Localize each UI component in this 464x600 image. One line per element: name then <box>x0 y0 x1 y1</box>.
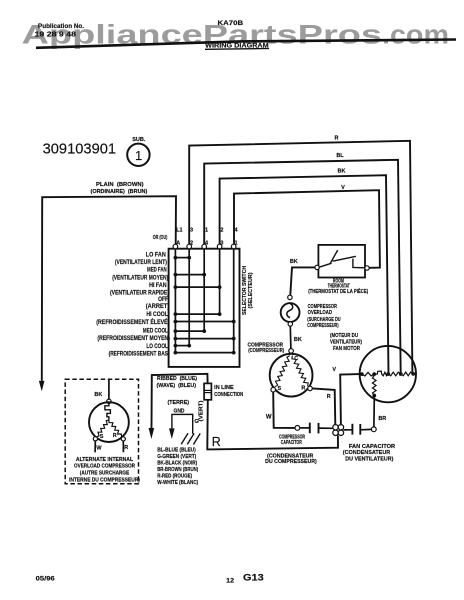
svg-text:(ORDINAIRE) (BRUN): (ORDINAIRE) (BRUN) <box>91 189 148 195</box>
svg-text:19 28 9 48: 19 28 9 48 <box>35 32 77 39</box>
selector switch <box>169 249 240 367</box>
model number KA70B <box>218 20 244 27</box>
fan motor labels <box>330 333 362 352</box>
svg-text:BL-BLUE (BLEU): BL-BLUE (BLEU) <box>157 448 196 454</box>
footer code G13 <box>243 573 264 584</box>
svg-text:INTERNE DU COMPRESSEUR): INTERNE DU COMPRESSEUR) <box>69 478 140 484</box>
svg-text:(REFROIDISSEMENT BAS): (REFROIDISSEMENT BAS) <box>109 351 170 357</box>
svg-text:VENTILATEUR): VENTILATEUR) <box>330 340 362 346</box>
label W <box>266 415 272 421</box>
svg-text:BK: BK <box>338 169 346 175</box>
ground wires with arrow <box>169 414 193 439</box>
svg-text:DU COMPRESSEUR): DU COMPRESSEUR) <box>265 459 317 465</box>
svg-text:FAN CAPACITOR: FAN CAPACITOR <box>349 444 396 450</box>
wire BR fan capacitor to fan motor <box>373 397 375 427</box>
wire V junction to fan motor <box>340 374 359 425</box>
svg-text:(WAVE) (BLEU): (WAVE) (BLEU) <box>157 383 197 389</box>
label SELECTOR SWITCH rotated <box>242 266 254 315</box>
in-line connector labels <box>214 385 243 398</box>
label BK <box>338 169 346 175</box>
svg-text:(ARRET): (ARRET) <box>146 304 170 310</box>
label R <box>335 135 339 141</box>
svg-text:COMPRESSOR: COMPRESSOR <box>308 304 338 310</box>
alt compressor lead wires <box>95 441 123 452</box>
svg-text:OVERLOAD COMPRESSOR: OVERLOAD COMPRESSOR <box>74 463 135 469</box>
svg-text:(TERRE): (TERRE) <box>168 400 190 406</box>
ground symbol <box>181 433 200 444</box>
svg-text:IN LINE: IN LINE <box>214 385 234 391</box>
svg-text:LO FAN: LO FAN <box>146 252 166 258</box>
svg-text:C: C <box>294 356 298 362</box>
compressor capacitor <box>295 423 333 434</box>
ground labels <box>168 400 200 425</box>
selector terminals <box>173 244 236 249</box>
svg-text:1: 1 <box>205 227 208 233</box>
svg-text:BR-BROWN (BRUN): BR-BROWN (BRUN) <box>157 467 198 473</box>
svg-text:4: 4 <box>205 241 209 247</box>
svg-text:KA70B: KA70B <box>218 20 244 27</box>
svg-text:.com: .com <box>382 20 449 50</box>
alt compressor labels <box>69 457 140 484</box>
svg-text:3: 3 <box>220 241 223 247</box>
wire BK alt compressor <box>108 380 110 399</box>
selector pin labels A 2 4 3 1 <box>176 241 237 247</box>
label R <box>327 394 331 400</box>
thermostat labels <box>308 279 368 295</box>
compressor capacitor labels <box>265 435 317 466</box>
label V <box>332 367 336 373</box>
svg-text:R: R <box>124 445 128 451</box>
svg-text:CONNECTION: CONNECTION <box>214 392 243 398</box>
publication number block <box>35 24 85 39</box>
svg-text:W: W <box>266 415 272 421</box>
wire ribbed blue with arrow <box>149 374 208 439</box>
svg-text:G13: G13 <box>243 573 264 584</box>
svg-text:MED COOL: MED COOL <box>143 328 168 334</box>
svg-text:(REFROIDISSEMENT MOYEN): (REFROIDISSEMENT MOYEN) <box>97 336 170 342</box>
svg-text:1: 1 <box>135 148 142 163</box>
label BL <box>336 153 344 159</box>
svg-text:Publication No.: Publication No. <box>38 24 84 30</box>
svg-text:R: R <box>301 385 305 391</box>
svg-text:(VERT): (VERT) <box>198 400 204 421</box>
svg-text:309103901: 309103901 <box>43 141 117 158</box>
fan capacitor <box>344 424 377 435</box>
svg-text:BK: BK <box>94 392 102 398</box>
svg-text:05/96: 05/96 <box>36 577 56 583</box>
svg-text:R: R <box>113 433 117 439</box>
svg-text:SELECTOR SWITCH: SELECTOR SWITCH <box>242 266 248 315</box>
selector position labels <box>96 252 170 357</box>
svg-text:(THERMOSTAT DE LA PIÈCE): (THERMOSTAT DE LA PIÈCE) <box>308 287 368 295</box>
svg-text:ALTERNATE INTERNAL: ALTERNATE INTERNAL <box>76 457 134 463</box>
svg-text:(AUTRE SURCHARGE: (AUTRE SURCHARGE <box>80 470 130 476</box>
svg-text:BK: BK <box>290 259 298 265</box>
svg-text:LO COOL: LO COOL <box>146 344 168 350</box>
svg-text:G-GREEN (VERT): G-GREEN (VERT) <box>157 454 196 460</box>
wire V net <box>234 190 380 268</box>
wire W from compressor S <box>273 392 295 428</box>
svg-text:COMPRESSEUR): COMPRESSEUR) <box>307 323 339 329</box>
svg-text:HI COOL: HI COOL <box>146 312 168 318</box>
alt compressor motor <box>89 399 129 442</box>
fan motor <box>360 346 416 402</box>
label PLAIN (BROWN) <box>91 182 148 195</box>
svg-text:OVERLOAD: OVERLOAD <box>308 310 333 316</box>
svg-text:1: 1 <box>235 241 238 247</box>
wire BK net <box>220 175 389 373</box>
svg-text:PLAIN (BROWN): PLAIN (BROWN) <box>96 182 144 188</box>
sub revision circle 1 <box>127 137 149 166</box>
svg-text:(SELECTEUR): (SELECTEUR) <box>248 272 254 308</box>
alternate internal overload compressor <box>65 379 138 484</box>
wire color legend <box>157 448 198 486</box>
svg-text:V: V <box>341 185 345 191</box>
svg-text:(VENTILATEUR LENT): (VENTILATEUR LENT) <box>115 260 167 266</box>
selector column wires <box>175 249 233 353</box>
svg-text:2: 2 <box>220 227 223 233</box>
compressor labels <box>248 343 285 355</box>
svg-text:RIBBED (BLUE): RIBBED (BLUE) <box>157 376 197 382</box>
selector pin labels L1 3 1 2 4 <box>176 227 238 233</box>
wire BK thermostat to overload <box>290 267 315 295</box>
label RIBBED (BLUE) <box>157 376 198 389</box>
svg-text:(REFROIDISSEMENT ÉLEVÉ): (REFROIDISSEMENT ÉLEVÉ) <box>96 318 169 326</box>
svg-text:A: A <box>176 241 180 247</box>
svg-text:G: G <box>194 419 199 425</box>
svg-text:(VENTILATEUR MOYEN): (VENTILATEUR MOYEN) <box>112 276 168 282</box>
svg-text:R: R <box>335 135 339 141</box>
label (VERT) rotated <box>198 400 204 421</box>
svg-text:FAN MOTOR: FAN MOTOR <box>333 346 360 352</box>
label BR <box>378 416 386 422</box>
label BK <box>294 337 302 343</box>
svg-text:3: 3 <box>190 227 193 233</box>
wire BL net <box>204 160 401 373</box>
overload labels <box>307 304 341 329</box>
label BK <box>290 259 298 265</box>
svg-text:12: 12 <box>226 579 235 585</box>
svg-text:(COMPRESSEUR): (COMPRESSEUR) <box>248 348 284 354</box>
wire L1 plain brown with arrow <box>39 196 176 391</box>
wire BK overload to compressor <box>289 326 292 348</box>
svg-text:HI FAN: HI FAN <box>149 283 167 289</box>
svg-text:BR: BR <box>378 416 386 422</box>
svg-text:4: 4 <box>235 227 239 233</box>
compressor overload <box>281 295 300 326</box>
wire W in-line connector to junction <box>207 400 338 450</box>
svg-text:CAPACITOR: CAPACITOR <box>281 440 302 446</box>
svg-text:(MOTEUR DU: (MOTEUR DU <box>330 333 358 339</box>
svg-text:SUB.: SUB. <box>132 137 146 143</box>
label OR (OU) <box>153 235 168 241</box>
svg-text:OFF: OFF <box>158 297 168 303</box>
room thermostat <box>315 245 369 278</box>
title WIRING DIAGRAM <box>205 42 269 49</box>
compressor pin labels C S R <box>277 356 305 392</box>
svg-text:V: V <box>332 367 336 373</box>
svg-text:R-RED (ROUGE): R-RED (ROUGE) <box>157 473 192 479</box>
svg-text:OR (OU): OR (OU) <box>153 235 168 241</box>
svg-text:R: R <box>212 435 221 449</box>
svg-text:GND: GND <box>174 409 185 415</box>
labels W R <box>96 445 128 452</box>
svg-text:BL: BL <box>336 153 344 159</box>
in-line connector <box>204 383 211 399</box>
svg-text:(CONDENSATEUR: (CONDENSATEUR <box>343 450 391 456</box>
svg-text:S: S <box>100 434 104 440</box>
label V <box>341 185 345 191</box>
footer page 12 <box>226 579 235 585</box>
svg-text:(VENTILATEUR RAPIDE): (VENTILATEUR RAPIDE) <box>110 291 169 297</box>
title rule <box>36 40 456 48</box>
svg-text:S: S <box>277 386 281 392</box>
svg-text:L1: L1 <box>176 227 182 233</box>
watermark <box>22 20 450 50</box>
compressor motor <box>270 349 313 397</box>
fan capacitor labels <box>343 444 396 463</box>
svg-text:BK-BLACK (NOIR): BK-BLACK (NOIR) <box>157 460 197 466</box>
svg-text:W-WHITE (BLANC): W-WHITE (BLANC) <box>157 480 198 486</box>
svg-text:W: W <box>96 446 102 452</box>
label BK <box>94 392 102 398</box>
selector contact rows <box>174 256 236 355</box>
part number 309103901 <box>43 141 117 158</box>
svg-text:MED FAN: MED FAN <box>147 267 167 273</box>
footer date 05/96 <box>36 577 56 583</box>
svg-text:2: 2 <box>190 241 193 247</box>
wire R compressor to junction <box>312 388 335 424</box>
svg-text:R: R <box>327 394 331 400</box>
svg-text:BK: BK <box>294 337 302 343</box>
junction terminal cluster <box>333 425 344 436</box>
alt compressor pin labels S R <box>100 433 117 440</box>
svg-text:DU VENTILATEUR): DU VENTILATEUR) <box>345 456 393 462</box>
label R large <box>212 435 221 449</box>
wire R net <box>189 141 412 373</box>
